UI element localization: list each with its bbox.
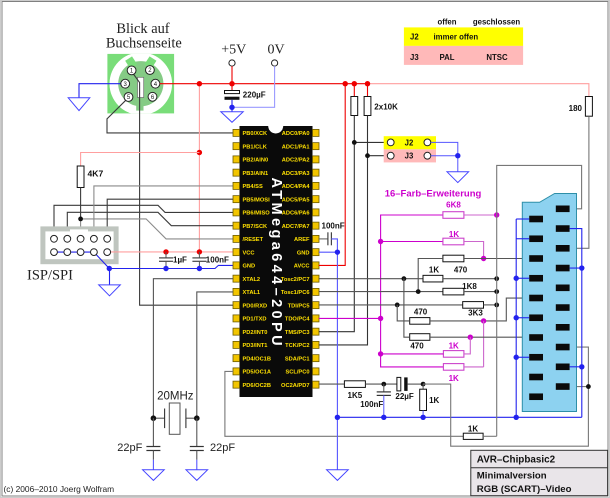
wire 10K B down to J3 and PC2 — [319, 116, 368, 345]
svg-text:PD6/OC2B: PD6/OC2B — [243, 383, 271, 389]
junction dot magenta on blue line — [481, 318, 486, 323]
wire 10K A down to J2 and PC3 — [319, 116, 355, 332]
junction dot magenta on red line — [468, 335, 473, 340]
U1 left pin 6 PB5/MOSI — [233, 196, 270, 204]
U1 right pin 28 Tosc1/PC6 — [281, 288, 319, 296]
resistor R10 470 (blue series) — [410, 307, 430, 324]
svg-text:ADC1/PA1: ADC1/PA1 — [282, 144, 310, 150]
resistor R9 3K3 (blue weight) — [463, 302, 484, 318]
sum node vertical wire — [497, 165, 582, 436]
svg-text:geschlossen: geschlossen — [473, 18, 520, 27]
svg-text:22pF: 22pF — [210, 442, 235, 454]
resistor R11 470 (red series) — [410, 334, 430, 351]
wire green line to SCART — [464, 258, 529, 260]
svg-text:1K: 1K — [449, 230, 459, 239]
svg-text:+5V: +5V — [221, 43, 246, 58]
junction dot 1K to ground bus — [420, 415, 425, 420]
junction dot +5V at bus — [229, 81, 234, 86]
svg-text:16–Farb–Erweiterung: 16–Farb–Erweiterung — [385, 189, 482, 200]
svg-text:GND: GND — [243, 264, 256, 270]
svg-text:J3: J3 — [410, 53, 419, 62]
ground symbol below jumpers — [447, 172, 469, 183]
pin 2 — [146, 66, 155, 75]
svg-text:PD3/INT1: PD3/INT1 — [243, 343, 268, 349]
svg-text:0V: 0V — [267, 43, 284, 58]
wire R7 to sum node — [443, 278, 497, 280]
stub SCART pin4L — [516, 277, 529, 279]
junction dot J3 — [365, 153, 370, 158]
junction dot GND stub — [335, 249, 340, 254]
svg-text:offen: offen — [437, 18, 456, 27]
svg-text:PB5/MOSI: PB5/MOSI — [243, 197, 271, 203]
wire 3K3 to sum node — [484, 304, 497, 306]
wire J2 right to ground (blue) — [431, 142, 458, 171]
wire ISP pin2 to PB7/SCK — [67, 212, 233, 235]
junction dot J3 ground — [455, 153, 460, 158]
connector X2 SCART — [522, 194, 576, 412]
svg-text:1K: 1K — [449, 342, 459, 351]
junction dot 6K8/sum — [494, 212, 499, 217]
wire green series left lead down to PC6 line — [418, 259, 443, 292]
svg-text:Minimalversion: Minimalversion — [477, 471, 547, 482]
wire ISP pin4 to PB4/SS — [94, 186, 233, 236]
svg-text:ADC4/PA4: ADC4/PA4 — [282, 184, 311, 190]
wire GND pin stub (blue) — [319, 251, 338, 253]
U1 left pin 10 VCC — [233, 249, 255, 257]
svg-text:PB4/SS: PB4/SS — [243, 184, 263, 190]
pin 4 — [151, 79, 160, 88]
U1 left pin 18 PD4/OC1B — [233, 355, 271, 363]
GND rail blue to chip GND — [109, 265, 233, 268]
capacitor C4 22pF left — [146, 418, 160, 470]
junction dot pin10R — [586, 384, 591, 389]
legend row J3 (pink) — [404, 46, 523, 65]
junction dot blue cap to 0V — [229, 105, 234, 110]
capacitor C6 100nF at AREF — [319, 232, 332, 245]
ground symbol below C4 — [143, 470, 165, 481]
svg-text:6K8: 6K8 — [446, 201, 461, 210]
resistor R5 1K (magenta, green channel) — [443, 230, 464, 245]
U1 left pin 7 PB6/MISO — [233, 209, 270, 217]
stub SCART pin9R — [570, 366, 582, 368]
U1 left pin 4 PB3/AIN1 — [233, 169, 268, 177]
wire PD5/OC1A to sync resistor (long bottom run) — [225, 371, 463, 436]
svg-text:2x10K: 2x10K — [374, 103, 398, 112]
ISP bottom row pin circles — [51, 249, 111, 256]
svg-text:PB2/AIN0: PB2/AIN0 — [243, 158, 269, 164]
U1 left pin 20 PD6/OC2B — [233, 381, 271, 389]
wire TDI/PC5 line — [319, 304, 463, 306]
svg-text:22pF: 22pF — [117, 442, 142, 454]
svg-text:J2: J2 — [410, 33, 419, 42]
junction dot magenta at 1K#1 — [378, 351, 383, 356]
junction dot bus/AVCC wire — [343, 81, 348, 86]
svg-text:Tosc2/PC7: Tosc2/PC7 — [281, 277, 310, 283]
svg-text:AVR–Chipbasic2: AVR–Chipbasic2 — [477, 455, 556, 466]
U1 left pin 8 PB7/SCK — [233, 222, 268, 230]
svg-text:470: 470 — [454, 266, 468, 275]
U1 right pin 23 SDA/PC1 — [285, 355, 319, 363]
svg-text:ADC2/PA2: ADC2/PA2 — [282, 158, 310, 164]
wire +5V to AVCC — [319, 84, 345, 266]
U1 right pin 37 ADC3/PA3 — [282, 169, 319, 177]
junction dot VCC rail at 1uF — [163, 249, 168, 254]
U1 left pin 16 PD2/INT0 — [233, 328, 267, 336]
svg-text:SCL/PC0: SCL/PC0 — [285, 370, 309, 376]
svg-text:TCK/PC2: TCK/PC2 — [285, 343, 309, 349]
U1 right pin 35 ADC5/PA5 — [282, 196, 319, 204]
junction dot PC5/470 branch — [395, 303, 400, 308]
wire 1K8 to sum node — [464, 291, 497, 293]
ISP top row pin circles — [51, 235, 111, 242]
pin 3 — [121, 79, 130, 88]
ground symbol bottom middle — [327, 470, 349, 481]
U1 right pin 34 ADC6/PA6 — [282, 209, 319, 217]
wire TDO/PC4 to magenta net — [319, 317, 381, 319]
U1 left pin 11 GND — [233, 262, 255, 270]
wire PS/2 pin3 to ground (blue) — [79, 84, 121, 98]
svg-text:PB0/XCK: PB0/XCK — [243, 131, 269, 137]
stub SCART pin2L — [516, 238, 529, 240]
junction dot crystal left — [151, 415, 157, 421]
svg-text:XTAL2: XTAL2 — [243, 277, 261, 283]
wire SCART pin10R stub — [570, 386, 589, 388]
capacitor C5 22pF right — [190, 418, 204, 470]
U1 right pin 38 ADC2/PA2 — [282, 156, 319, 164]
svg-text:/RESET: /RESET — [243, 237, 264, 243]
wire J3 left — [368, 155, 388, 157]
svg-text:180: 180 — [569, 104, 583, 113]
magenta net vertical (PD4/PC4 color bit) — [381, 215, 444, 367]
U1 right pin 31 GND — [297, 249, 319, 257]
wire ISP pin1 to PB6/MISO — [54, 205, 233, 235]
U1 right pin 29 Tosc2/PC7 — [281, 275, 319, 283]
junction dot pin4L — [514, 276, 519, 281]
SCART left column pins — [529, 216, 543, 400]
svg-text:3K3: 3K3 — [468, 308, 483, 317]
terminal 0V — [267, 43, 284, 67]
svg-text:470: 470 — [410, 341, 424, 350]
resistor R14 1K5 (sync series) — [344, 381, 365, 400]
svg-text:PB6/MISO: PB6/MISO — [243, 211, 271, 217]
connector X1 PS/2 mini-DIN6 socket — [107, 52, 174, 115]
wire pale red to 4K7 — [81, 153, 200, 167]
wire AREF cap to GND net (blue) — [331, 239, 337, 470]
svg-text:100nF: 100nF — [322, 222, 345, 231]
junction dot 4K7 tap — [197, 150, 202, 155]
junction dot sync/100nF — [381, 382, 386, 387]
wire R13 right lead up — [464, 366, 484, 368]
junction dot pin8L — [514, 355, 519, 360]
capacitor C8 22uF electrolytic (sync) — [395, 377, 423, 401]
U1 right pin 22 SCL/PC0 — [285, 368, 319, 376]
U1 left pin 13 XTAL1 — [233, 288, 260, 296]
wire ISP pin5 to PB5/MOSI — [107, 199, 233, 235]
jumper J3 (pink row) — [384, 149, 436, 162]
wire XTAL1 to crystal right — [197, 292, 233, 418]
resistor R17 180 (RGB blanking) — [569, 97, 593, 117]
ground symbol below C5 — [186, 470, 208, 481]
wire J3 right to ground (blue) — [431, 155, 458, 157]
resistor R7 1K (red weight) — [423, 266, 443, 282]
connector SV1 ISP/SPI header — [43, 229, 116, 262]
VCC rail pale red ISP to chip VCC — [107, 251, 233, 253]
svg-text:PD1/TXD: PD1/TXD — [243, 317, 267, 323]
junction dot bus/VCC feed — [197, 81, 202, 86]
SCART right column pins — [556, 206, 570, 390]
junction dot PC7/470 branch — [402, 276, 407, 281]
crystal Q1 20MHz — [153, 403, 196, 434]
svg-text:4K7: 4K7 — [88, 168, 104, 178]
svg-text:PD2/INT0: PD2/INT0 — [243, 330, 268, 336]
junction dot 4K7 / reset — [78, 217, 83, 222]
wire magenta 1K row — [381, 241, 443, 243]
wire 6K8 to sum node — [464, 214, 497, 216]
capacitor C2 1uF — [159, 252, 187, 269]
capacitor C7 100nF (sync) — [360, 384, 391, 417]
junction dot R7/sum — [494, 276, 499, 281]
wire blue line to SCART pin5 — [430, 298, 529, 321]
junction dot bus start — [335, 415, 340, 420]
wire 180 down to SCART pin3R — [570, 116, 589, 248]
svg-text:ADC5/PA5: ADC5/PA5 — [282, 197, 310, 203]
legend row J2 (yellow) — [404, 27, 523, 46]
wire 4K7 to reset node — [80, 188, 82, 219]
svg-text:NTSC: NTSC — [486, 53, 508, 62]
U1 left pin 5 PB4/SS — [233, 182, 263, 190]
U1 left pin 14 PD0/RXD — [233, 302, 267, 310]
junction dot bus/10K B — [365, 81, 370, 86]
resistor R4 6K8 (magenta) — [443, 201, 464, 219]
junction dot bus/10K A — [352, 81, 357, 86]
resistor R15 1K (sync load) — [420, 384, 440, 417]
resistor R2 10K pullup A — [351, 84, 358, 116]
svg-text:ATMega644–20PU: ATMega644–20PU — [268, 178, 284, 349]
U1 right pin 30 AVCC — [294, 262, 319, 270]
resistor R1 4K7 (reset pullup) — [77, 166, 103, 188]
svg-text:AVCC: AVCC — [294, 264, 310, 270]
U1 left pin 3 PB2/AIN0 — [233, 156, 268, 164]
capacitor C3 100nF — [192, 252, 229, 269]
wire reset net ISP pin3 to /RESET — [81, 219, 234, 239]
blue ground vertical left of SCART — [515, 219, 517, 417]
IC U1 ATMega644-20PU body — [240, 126, 313, 397]
pin 5 — [124, 93, 133, 102]
svg-text:J2: J2 — [405, 138, 414, 147]
stub SCART pin4R — [570, 267, 582, 269]
stub SCART pin6L — [516, 317, 529, 319]
U1 right pin 25 TMS/PC3 — [285, 328, 319, 336]
+5V bus wire — [160, 83, 368, 85]
ISP bottom row ground links (blue) — [54, 252, 109, 268]
junction dot magenta at 1K row — [378, 239, 383, 244]
stub SCART pin1L — [516, 218, 529, 220]
junction dot ground bus left SCART — [514, 415, 519, 420]
ground wire below ISP — [109, 268, 111, 285]
junction dot 1K8/sum — [494, 289, 499, 294]
wire XTAL2 to crystal left — [153, 279, 233, 419]
wire 1K5 to node — [365, 383, 397, 385]
svg-text:immer offen: immer offen — [434, 33, 479, 42]
svg-text:PB7/SCK: PB7/SCK — [243, 224, 269, 230]
svg-text:100nF: 100nF — [360, 400, 383, 409]
U1 left pin 17 PD3/INT1 — [233, 341, 267, 349]
svg-text:1K5: 1K5 — [348, 391, 363, 400]
svg-text:ADC0/PA0: ADC0/PA0 — [282, 131, 310, 137]
wire Tosc1/PC6 line — [319, 291, 443, 293]
svg-text:ISP/SPI: ISP/SPI — [27, 268, 73, 284]
title block — [471, 450, 608, 495]
svg-text:AREF: AREF — [294, 237, 310, 243]
svg-text:J3: J3 — [405, 152, 414, 161]
U1 left pin 19 PD5/OC1A — [233, 368, 271, 376]
junction dot GND rail at 100nF — [197, 266, 202, 271]
svg-text:XTAL1: XTAL1 — [243, 290, 261, 296]
svg-text:PAL: PAL — [439, 53, 454, 62]
svg-text:OC2A/PD7: OC2A/PD7 — [281, 383, 309, 389]
jumper J2 (yellow row) — [384, 136, 436, 149]
wire PS/2 pin5 (clock) to PB0/XCK — [107, 99, 233, 133]
junction dot on green line — [481, 256, 486, 261]
U1 right pin 33 ADC7/PA7 — [282, 222, 319, 230]
resistor R16 1K (video sum to sync) — [463, 425, 483, 440]
junction dot J2 — [352, 140, 357, 145]
svg-text:ADC7/PA7: ADC7/PA7 — [282, 224, 310, 230]
svg-text:Buchsenseite: Buchsenseite — [106, 35, 182, 51]
legend table header — [437, 18, 520, 27]
U1 left pin 9 /RESET — [233, 235, 264, 243]
junction dot GND rail at 1uF — [163, 266, 168, 271]
resistor R8 1K8 (green weight) — [443, 282, 477, 295]
junction dot crystal right — [194, 415, 200, 421]
wire PS/2 pin1 (data) to PD0/RXD — [132, 72, 234, 306]
svg-text:RGB (SCART)–Video: RGB (SCART)–Video — [477, 484, 572, 495]
U1 right pin 36 ADC4/PA4 — [282, 182, 319, 190]
U1 left pin 1 PB0/XCK — [233, 129, 268, 137]
junction dot ISP ground — [107, 266, 112, 271]
wire sync node to SCART pin8/10 right — [423, 347, 588, 446]
stub SCART pin8L — [516, 356, 529, 358]
wire pale red bus to 180 resistor — [368, 84, 589, 97]
terminal +5V — [221, 43, 246, 67]
wire OC2A/PD7 to 1K5 — [319, 383, 345, 385]
pin 1 — [127, 66, 136, 75]
wire red line to SCART pin7 — [430, 336, 529, 338]
junction dot PC6/470 — [416, 289, 421, 294]
U1 right pin 21 OC2A/PD7 — [281, 381, 319, 389]
svg-text:1K: 1K — [468, 425, 478, 434]
resistor R6 470 (green series) — [443, 255, 468, 274]
junction dot 3K3/sum — [494, 303, 499, 308]
wire R5 to green line — [464, 242, 484, 259]
svg-text:(c) 2006–2010 Joerg Wolfram: (c) 2006–2010 Joerg Wolfram — [4, 484, 115, 494]
pin 6 — [148, 92, 157, 101]
U1 left pin 12 XTAL2 — [233, 275, 260, 283]
U1 right pin 27 TDI/PC5 — [288, 302, 319, 310]
svg-text:1µF: 1µF — [173, 256, 187, 265]
wire pale red vertical VCC feed — [198, 84, 200, 252]
resistor R12 1K (magenta to red line) — [443, 342, 464, 358]
svg-text:ADC3/PA3: ADC3/PA3 — [282, 171, 310, 177]
ground symbol below ISP — [99, 285, 121, 296]
svg-text:PB1/CLK: PB1/CLK — [243, 144, 268, 150]
svg-text:TMS/PC3: TMS/PC3 — [285, 330, 310, 336]
junction dot pin4R — [579, 265, 584, 270]
U1 left pin 15 PD1/TXD — [233, 315, 267, 323]
blue ground vertical right of SCART — [570, 229, 582, 418]
ground symbol below PS/2 pin3 — [68, 98, 90, 111]
wire magenta net to R12 — [381, 353, 444, 355]
svg-text:PD5/OC1A: PD5/OC1A — [243, 370, 271, 376]
wire 0V terminal (pale blue) — [232, 66, 275, 107]
junction dot 100nF to ground bus — [381, 415, 386, 420]
svg-text:22µF: 22µF — [395, 392, 414, 401]
wire +5V terminal down to bus and cap — [231, 66, 233, 91]
svg-text:1K: 1K — [449, 374, 459, 383]
U1 right pin 24 TCK/PC2 — [285, 341, 319, 349]
svg-text:470: 470 — [414, 307, 428, 316]
svg-text:GND: GND — [297, 250, 310, 256]
resistor R13 1K (magenta to blue line) — [443, 364, 464, 383]
svg-text:Tosc1/PC6: Tosc1/PC6 — [281, 290, 310, 296]
svg-text:PD4/OC1B: PD4/OC1B — [243, 356, 271, 362]
resistor R3 10K pullup B — [364, 84, 371, 116]
U1 left pin 2 PB1/CLK — [233, 143, 268, 151]
junction dot pin9R — [579, 364, 584, 369]
svg-text:220µF: 220µF — [243, 90, 266, 99]
svg-text:SDA/PC1: SDA/PC1 — [285, 356, 310, 362]
svg-text:20MHz: 20MHz — [157, 390, 194, 402]
svg-text:PD0/RXD: PD0/RXD — [243, 303, 268, 309]
wire R16 right lead to sum node vertical — [483, 435, 497, 437]
svg-text:PB3/AIN1: PB3/AIN1 — [243, 171, 269, 177]
capacitor C1 220uF electrolytic — [225, 91, 240, 112]
junction dot pin6L — [514, 315, 519, 320]
svg-text:1K: 1K — [429, 266, 439, 275]
U1 right pin 39 ADC1/PA1 — [282, 143, 319, 151]
svg-text:100nF: 100nF — [206, 256, 229, 265]
wire J2 left — [354, 141, 387, 143]
wire Tosc2/PC7 line — [319, 278, 423, 280]
svg-text:1K: 1K — [429, 396, 439, 405]
wire PC5 branch down to R10 — [397, 305, 410, 321]
junction dot VCC rail / pale vertical — [197, 249, 202, 254]
U1 right pin 40 ADC0/PA0 — [282, 129, 319, 137]
blue ground bus bottom — [337, 416, 581, 418]
junction dot magenta at PC4 — [378, 316, 383, 321]
svg-text:TDI/PC5: TDI/PC5 — [288, 303, 310, 309]
ground symbol below 220uF — [221, 112, 243, 123]
wire R12 up to red line — [464, 337, 470, 354]
svg-text:VCC: VCC — [243, 250, 255, 256]
svg-text:1K8: 1K8 — [462, 282, 477, 291]
wire magenta R12 to blue line — [483, 321, 485, 367]
svg-text:TDO/PC4: TDO/PC4 — [285, 317, 310, 323]
wire PC7 branch down to R11 — [404, 279, 410, 338]
svg-text:ADC6/PA6: ADC6/PA6 — [282, 211, 310, 217]
junction dot 22uF/1K — [421, 382, 426, 387]
U1 right pin 32 AREF — [294, 235, 319, 243]
U1 right pin 26 TDO/PC4 — [285, 315, 319, 323]
